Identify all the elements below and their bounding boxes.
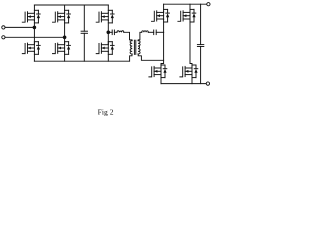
capacitor C1 (DC-link): [81, 31, 87, 33]
capacitor C2 (primary series resonant): [112, 30, 114, 35]
transistor Q5 (leg3 high-side MOSFET): [96, 5, 114, 32]
transistor Q1 (leg1 high-side MOSFET): [22, 5, 40, 27]
capacitor C3 (output filter): [197, 45, 203, 47]
svg-text:Fig 2: Fig 2: [98, 108, 114, 117]
wire C1 bottom lead: [83, 33, 85, 61]
terminal output-: [206, 82, 209, 85]
wire L1 to transformer primary: [124, 32, 132, 40]
inductor L1: [117, 31, 124, 33]
transistor Q3 (leg2 high-side MOSFET): [53, 5, 71, 37]
wire leg B midpoint down to Q10 drain: [190, 21, 192, 67]
terminal output+: [207, 3, 210, 6]
transformer T1 primary winding: [130, 41, 132, 54]
wire leg1 midpoint to Q2 drain: [33, 27, 35, 44]
wire leg3 midpoint to Q6 drain: [107, 32, 109, 44]
transistor Q7 (right leg A high-side MOSFET): [152, 4, 170, 32]
wire L2 to C4: [148, 31, 153, 33]
transistor Q2 (leg1 low-side MOSFET): [22, 42, 40, 62]
transistor Q8 (right leg B high-side MOSFET): [178, 4, 196, 22]
wire C3 top lead: [200, 4, 202, 44]
terminal input-: [2, 36, 5, 39]
transistor Q9 (right leg A low-side MOSFET): [149, 65, 167, 84]
wire leg3 midpoint to C2: [108, 31, 112, 33]
wire top rail (right bridge): [164, 3, 207, 5]
inductor L2: [142, 31, 149, 32]
wire bottom rail (left section): [34, 60, 129, 62]
transistor Q4 (leg2 low-side MOSFET): [53, 42, 71, 62]
wire input+ to leg1 midpoint: [5, 26, 34, 28]
transformer T1 core: [134, 40, 135, 54]
wire top rail (left section): [34, 4, 108, 6]
wire bottom rail (right bridge): [161, 83, 206, 85]
wire input- to leg2 midpoint: [5, 36, 65, 38]
wire leg A midpoint down to Q9 drain: [161, 32, 164, 67]
wire C3 bottom lead: [200, 47, 202, 84]
wire transformer primary bottom to bottom rail: [130, 54, 132, 61]
terminal input+: [2, 26, 5, 29]
wire transformer secondary bottom return: [138, 54, 163, 60]
transistor Q10 (right leg B low-side MOSFET): [180, 65, 198, 84]
wire C2 to L1: [114, 31, 117, 33]
node C junction dot (leg3 midpoint): [107, 31, 111, 35]
node A junction dot (leg1 midpoint): [33, 26, 37, 30]
wire leg2 midpoint to Q4 drain: [64, 37, 66, 44]
wire C4 to right-bridge leg A midpoint: [156, 31, 163, 33]
capacitor C4 (secondary series resonant): [154, 30, 157, 35]
transformer T1 secondary winding: [138, 41, 140, 54]
transistor Q6 (leg3 low-side MOSFET): [96, 42, 114, 62]
node B junction dot (leg2 midpoint): [63, 36, 67, 40]
wire C1 top lead: [83, 5, 85, 31]
wire transformer secondary top lead: [138, 32, 142, 40]
